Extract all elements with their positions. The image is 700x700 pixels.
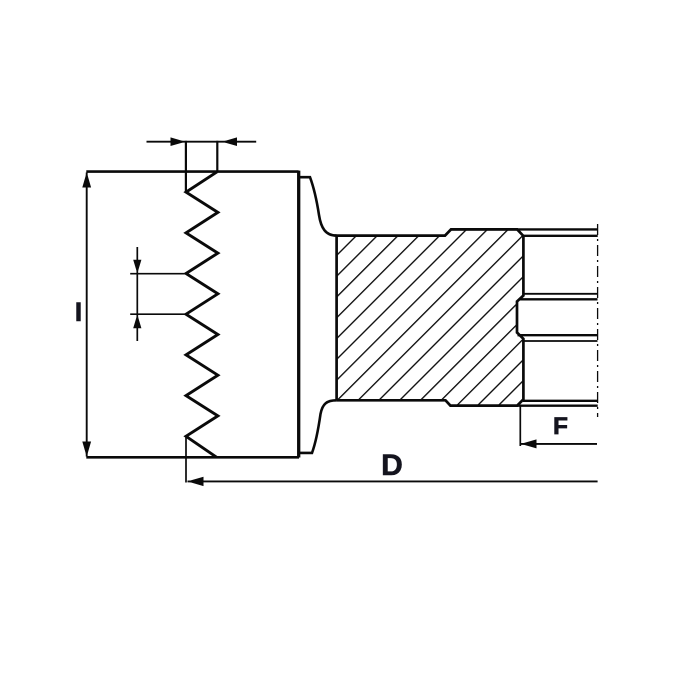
tooth width extension line right (216, 141, 218, 172)
pitch arrow up (133, 314, 141, 328)
dimension F arrow (521, 439, 537, 448)
thread line groove1 upper (523, 293, 598, 295)
hub outline (337, 229, 524, 405)
dimension D extension line (185, 438, 187, 483)
body bottom edge / I extension bottom (86, 456, 299, 459)
dimension I vertical line (86, 173, 88, 457)
thread line top outer (451, 228, 598, 230)
tooth width arrow right-pointing (171, 137, 186, 146)
thread line groove1 lower (519, 298, 598, 300)
dimension F extension line (519, 407, 521, 447)
thread line bottom inner (523, 400, 598, 402)
top step and shoulder curve (299, 177, 337, 235)
dimension F line (521, 443, 597, 445)
tooth width extension line left (185, 141, 187, 192)
thread line bottom outer (450, 405, 597, 407)
cutter right edge (297, 171, 300, 458)
thread line groove2 upper (518, 334, 598, 336)
pitch dim top line (130, 273, 187, 275)
pitch dim vertical line (136, 247, 138, 341)
svg-text:D: D (381, 449, 403, 482)
dimension I bottom arrow (82, 442, 91, 457)
pitch arrow down (133, 260, 141, 274)
bottom step and shoulder curve (299, 400, 337, 453)
body top edge / I extension top (86, 170, 298, 173)
thread line top inner (523, 235, 598, 237)
svg-text:I: I (75, 297, 83, 327)
dimension D arrow (187, 477, 203, 486)
pitch dim bottom line (130, 313, 187, 315)
serrated teeth zigzag (186, 172, 218, 457)
chain line (axis) (597, 224, 599, 417)
tooth width dim line (147, 141, 257, 143)
hatching of hub cross-section (337, 229, 524, 405)
thread line groove2 lower (523, 340, 598, 342)
svg-text:F: F (553, 413, 568, 440)
dimension D line (188, 480, 598, 482)
dimension I top arrow (82, 172, 91, 187)
tooth width arrow left-pointing (222, 137, 237, 146)
